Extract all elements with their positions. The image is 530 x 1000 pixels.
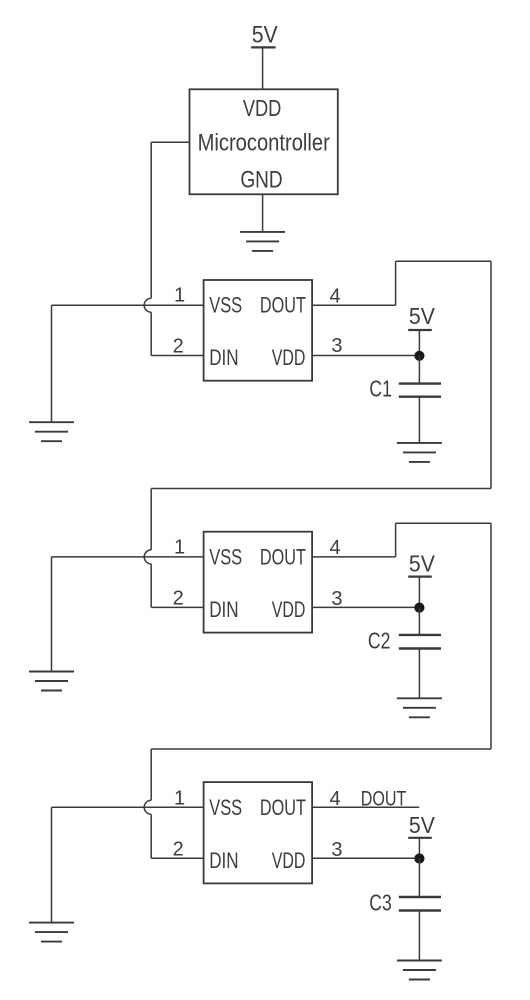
svg-text:2: 2 bbox=[173, 587, 184, 609]
wire U3 pin 1 VSS to ground bbox=[52, 556, 204, 558]
svg-text:5V: 5V bbox=[409, 303, 436, 329]
microcontroller U1 box bbox=[190, 89, 338, 194]
wire 5V bar to node bbox=[418, 577, 420, 608]
wire U3 DOUT to U4 DIN (chain) bbox=[151, 523, 491, 749]
junction node (U4 VDD / C3) bbox=[414, 853, 424, 863]
svg-text:VDD: VDD bbox=[272, 848, 306, 873]
wire microcontroller GND down bbox=[262, 194, 264, 232]
ground (C2) bbox=[397, 698, 442, 717]
svg-text:VDD: VDD bbox=[272, 597, 306, 622]
svg-text:DIN: DIN bbox=[209, 597, 238, 622]
svg-text:DOUT: DOUT bbox=[260, 795, 306, 820]
svg-text:VDD: VDD bbox=[272, 345, 306, 370]
svg-text:Microcontroller: Microcontroller bbox=[198, 130, 330, 157]
svg-text:C1: C1 bbox=[369, 376, 392, 402]
wire node to C1 bbox=[418, 356, 420, 384]
wire node to C3 bbox=[418, 859, 420, 898]
svg-text:GND: GND bbox=[240, 167, 282, 194]
ground (U4 VSS) bbox=[29, 923, 74, 942]
wire microcontroller data out (left side) bbox=[151, 141, 189, 143]
wire U4 pin 2 DIN bbox=[151, 857, 203, 859]
wire 5V to microcontroller VDD bbox=[262, 47, 264, 89]
wire chain down to U4 DIN bbox=[150, 749, 152, 800]
svg-text:5V: 5V bbox=[409, 551, 436, 577]
junction node (U3 VDD / C2) bbox=[414, 603, 424, 613]
wire hop over U2 VSS wire bbox=[144, 298, 151, 312]
wire data to U2 DIN bbox=[150, 312, 152, 355]
wire 5V bar to node bbox=[418, 330, 420, 356]
wire 5V bar to node bbox=[418, 838, 420, 859]
svg-text:1: 1 bbox=[174, 788, 185, 810]
capacitor C3 bbox=[399, 897, 441, 911]
ground (U2 VSS) bbox=[29, 422, 74, 441]
svg-text:4: 4 bbox=[329, 286, 340, 308]
junction node (U2 VDD / C1) bbox=[414, 351, 424, 361]
wire U4 DOUT output stub bbox=[312, 806, 419, 808]
svg-text:VDD: VDD bbox=[243, 95, 282, 121]
svg-text:1: 1 bbox=[174, 536, 185, 558]
IC U4 box bbox=[204, 782, 313, 883]
wire U2 DOUT to U3 DIN (chain) bbox=[151, 261, 491, 488]
wire C1 to ground bbox=[418, 397, 420, 443]
wire U3 pin 2 DIN bbox=[151, 606, 203, 608]
IC U3 box bbox=[204, 532, 313, 633]
wire U2 pin 1 VSS to ground bbox=[52, 304, 204, 306]
svg-text:5V: 5V bbox=[409, 812, 436, 838]
power symbol 5V (U3 VDD) bbox=[408, 551, 435, 577]
wire U4 pin 1 VSS to ground bbox=[52, 806, 204, 808]
svg-text:DOUT: DOUT bbox=[260, 544, 306, 569]
svg-text:VSS: VSS bbox=[209, 795, 242, 820]
svg-text:DOUT: DOUT bbox=[260, 293, 306, 318]
ground (microcontroller) bbox=[240, 232, 285, 251]
svg-text:DIN: DIN bbox=[209, 848, 238, 873]
svg-text:3: 3 bbox=[331, 588, 342, 610]
svg-text:DIN: DIN bbox=[209, 345, 238, 370]
wire U3 pin 3 VDD to 5V node bbox=[312, 606, 419, 608]
power symbol 5V (U2 VDD) bbox=[408, 303, 435, 330]
svg-text:C2: C2 bbox=[368, 628, 391, 654]
svg-text:4: 4 bbox=[329, 537, 340, 559]
wire U4 pin 3 VDD to 5V node bbox=[312, 857, 419, 859]
ground (C3) bbox=[397, 961, 442, 980]
capacitor C2 bbox=[399, 635, 441, 649]
svg-text:VSS: VSS bbox=[209, 544, 242, 569]
wire C2 to ground bbox=[418, 649, 420, 699]
ground (C1) bbox=[397, 443, 442, 462]
svg-text:2: 2 bbox=[173, 336, 184, 358]
wire C3 to ground bbox=[418, 911, 420, 961]
wire U2 pin 2 DIN bbox=[151, 355, 203, 357]
svg-text:C3: C3 bbox=[369, 890, 392, 916]
wire chain down to U3 DIN bbox=[150, 489, 152, 550]
wire hop over U4 VSS wire bbox=[144, 800, 151, 814]
svg-text:1: 1 bbox=[174, 285, 185, 307]
svg-text:3: 3 bbox=[331, 335, 342, 357]
svg-text:5V: 5V bbox=[252, 21, 278, 48]
svg-text:2: 2 bbox=[173, 838, 184, 860]
ground (U3 VSS) bbox=[29, 672, 74, 691]
svg-text:DOUT: DOUT bbox=[361, 787, 407, 810]
wire node to C2 bbox=[418, 608, 420, 635]
wire U2 pin 3 VDD to 5V node bbox=[312, 355, 419, 357]
IC U2 box bbox=[204, 280, 313, 381]
capacitor C1 bbox=[399, 384, 441, 397]
power symbol 5V (top, microcontroller supply) bbox=[251, 21, 278, 48]
power symbol 5V (U4 VDD) bbox=[408, 812, 435, 838]
wire hop over U3 VSS wire bbox=[144, 550, 151, 564]
svg-text:VSS: VSS bbox=[209, 293, 242, 318]
